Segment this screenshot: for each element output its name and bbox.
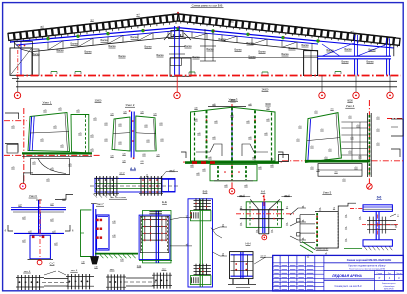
section E-E outline [139, 211, 171, 263]
title block object name [331, 274, 362, 278]
node 6 axis circle [37, 260, 42, 265]
svg-text:Узел 2: Узел 2 [126, 103, 135, 107]
truss top chord left slope [10, 28, 178, 45]
svg-text:лист 8: лист 8 [24, 271, 31, 273]
purlin leader labels [40, 14, 354, 33]
svg-text:С(: С( [271, 158, 274, 161]
node 3 side section ticks [181, 152, 283, 158]
section A-A hatch below [93, 194, 117, 198]
node 2 title [125, 103, 135, 107]
svg-text:Смена чертежей КМ-021-ОБОЗНАЧ: Смена чертежей КМ-021-ОБОЗНАЧ [347, 258, 392, 262]
svg-text:Балка: Балка [84, 51, 92, 54]
svg-text:0-0: 0-0 [377, 195, 382, 199]
node 3 edge stiffener dashes [195, 113, 272, 161]
svg-text:Балка: Балка [234, 49, 242, 52]
svg-text:лист: лист [162, 268, 167, 270]
svg-text:Балка: Балка [281, 53, 289, 56]
section A-A bolt cluster right [139, 176, 163, 196]
section E-E leader labels [170, 215, 192, 246]
svg-text:С-С: С-С [50, 261, 55, 265]
brace detail crossing beams [240, 210, 284, 234]
section H-H label [246, 241, 251, 245]
node 6 section arrows b-b [5, 225, 74, 233]
svg-text:24000: 24000 [262, 89, 269, 92]
node 2 dim labels [104, 111, 164, 163]
title label: scheme of frame axis [191, 3, 224, 7]
roof purlins right slope [177, 14, 400, 47]
svg-text:6000: 6000 [265, 103, 271, 106]
truss bottom chord right [178, 37, 318, 52]
node 3 internal bracket lines [196, 144, 268, 156]
title block project name [349, 264, 387, 270]
section E-E label [162, 200, 167, 204]
title block outer frame [273, 255, 404, 291]
svg-text:Балка: Балка [108, 45, 116, 48]
strip V-V bottom splice box [190, 276, 211, 285]
svg-text:лист3: лист3 [239, 195, 245, 197]
annex bracing webs [322, 43, 386, 56]
green dimension ticks above baseline [51, 72, 341, 75]
ground line upper [16, 80, 397, 82]
svg-text:АРХСТРОЙ: АРХСТРОЙ [384, 288, 394, 291]
svg-text:Узел 4: Узел 4 [346, 104, 355, 108]
annex roof chord [318, 41, 394, 56]
svg-text:Балка: Балка [144, 46, 152, 49]
svg-text:С-Е: С-Е [137, 264, 142, 268]
svg-text:Узел 3: Узел 3 [229, 98, 238, 102]
brace detail red axis [236, 195, 294, 220]
svg-text:Н-Н: Н-Н [246, 241, 251, 245]
truss bottom chord left [33, 37, 178, 52]
axis circle 4 [353, 92, 359, 98]
title block sheet name [334, 285, 362, 288]
column base anchor wedge [91, 257, 99, 265]
svg-text:Схема расп. на оси Б-К: Схема расп. на оси Б-К [334, 285, 362, 288]
node 1 beam panel [28, 113, 70, 152]
svg-text:Узел 5: Узел 5 [323, 191, 332, 195]
section label V-V [203, 189, 208, 193]
section H-H leader [254, 255, 272, 264]
node 1 red axis vertical [4, 108, 100, 184]
svg-text:Балка: Балка [118, 55, 126, 58]
truss web members right [192, 32, 312, 51]
svg-text:Балка: Балка [206, 48, 214, 51]
column base labels [81, 221, 124, 269]
node 6 top flange beam [11, 207, 66, 212]
node 5 bottom slant [300, 242, 315, 253]
node 1 base outline and arc [31, 159, 71, 175]
node 4 title [345, 104, 354, 108]
roof deck line right [178, 14, 396, 38]
svg-text:Балка: Балка [258, 51, 266, 54]
svg-text:Расчетная часть и монтаж конст: Расчетная часть и монтаж конструкций КМ [349, 268, 385, 271]
node 6 top right step bracket [55, 194, 73, 199]
svg-text:Листов: Листов [396, 273, 401, 275]
node 3 dim labels [190, 104, 274, 187]
node 4 left tick [271, 155, 289, 162]
section A-A label [130, 167, 137, 171]
axis circle 2 [174, 92, 180, 98]
span dimension labels below ground [95, 89, 354, 107]
svg-text:Балка: Балка [192, 56, 200, 59]
node 3 stiffener dashed rib 3 [254, 110, 256, 160]
svg-text:лист2: лист2 [169, 170, 175, 172]
column base blue column line [91, 204, 97, 257]
svg-text:Е-Е: Е-Е [162, 200, 167, 204]
brace detail blue web pair [263, 202, 265, 233]
brace detail gusset plate [246, 202, 281, 228]
node 2 center splice plates [129, 110, 135, 159]
svg-text:Балка: Балка [184, 45, 192, 48]
svg-text:Балка: Балка [344, 48, 352, 51]
axis circle 1 [14, 92, 20, 98]
strip V-V bottom bolt grid [194, 264, 211, 275]
node markers on top chord [46, 26, 320, 42]
svg-text:6000: 6000 [347, 100, 353, 103]
node 6 dim labels [18, 199, 66, 245]
annex column axis 5 [387, 38, 390, 76]
section 0-0 bolt grid [362, 214, 399, 236]
node 4 lower box [318, 164, 362, 177]
node 6 base box [28, 199, 54, 261]
axis circle 3 [319, 92, 325, 98]
svg-text:Балка: Балка [130, 36, 138, 39]
column base detail label [96, 203, 104, 206]
ridge post structure [200, 29, 216, 61]
node 3 bearing band [185, 161, 279, 164]
section A-A bolt cluster left [94, 176, 119, 196]
column axis 3 (right main) [304, 51, 318, 76]
node 1 right gusset panel [71, 115, 89, 154]
anchor strip 2 left cluster [106, 274, 126, 290]
anchor strip 1 right cluster [66, 274, 94, 289]
svg-text:лист3: лист3 [260, 255, 266, 257]
svg-text:б-б: б-б [261, 189, 266, 193]
section 0-0 web [376, 211, 379, 239]
svg-text:Балка: Балка [341, 60, 349, 63]
svg-text:лист2: лист2 [119, 173, 125, 175]
svg-text:Схема рамы по оси Б-В: Схема рамы по оси Б-В [192, 3, 223, 7]
node 5 top step bracket [338, 203, 363, 211]
brace detail labels [240, 207, 289, 232]
node 4 axis circle with slash [367, 184, 373, 190]
strip V-V top bolt grid [194, 198, 211, 210]
svg-text:Балка: Балка [100, 39, 108, 42]
column base ground line [95, 254, 138, 259]
node 6 web stem [36, 200, 42, 233]
axis circle 5 [387, 92, 393, 98]
column base green bracket [81, 210, 92, 257]
node 1 bearing band [22, 153, 92, 156]
svg-text:ЛЕДОВАЯ АРЕНА: ЛЕДОВАЯ АРЕНА [331, 274, 362, 278]
note above title block [316, 248, 362, 250]
red datum dash-dot line [16, 75, 401, 77]
truss top chord right slope [178, 28, 318, 44]
svg-text:30000: 30000 [95, 100, 102, 103]
strip V-V top splice box [190, 211, 211, 221]
brace detail axis circle [262, 235, 267, 240]
svg-text:Балка: Балка [70, 42, 78, 45]
annex column axis 4 [355, 35, 358, 76]
title block doc number [347, 258, 392, 262]
svg-text:лист3: лист3 [284, 195, 290, 197]
node 4 red axes [282, 100, 403, 183]
anchor strip 2 labels [110, 264, 167, 271]
svg-text:Балка: Балка [326, 49, 334, 52]
weld callout symbols [290, 206, 306, 240]
anchor strip 2 right cluster [152, 273, 172, 289]
node 4 connection web lines [341, 122, 367, 160]
eave brace left [14, 43, 33, 53]
svg-text:Узел 6: Узел 6 [29, 194, 37, 198]
column base bolt squares [96, 219, 102, 239]
node 2 right panel [136, 116, 156, 151]
node 1 title [42, 101, 52, 105]
column base flange plate [97, 215, 110, 250]
anchor strip 2 tie rods [124, 278, 156, 286]
node 4 column flange vertical [368, 113, 372, 177]
node 3 title [228, 98, 238, 102]
node 3 stiffener dashed rib 1 [206, 110, 208, 160]
node 4 bearing band [305, 160, 370, 163]
svg-text:лист 2 со стыком: лист 2 со стыком [110, 197, 126, 199]
section 0-0 bottom flange [363, 240, 392, 250]
svg-text:Стадия: Стадия [377, 273, 383, 275]
svg-text:Балка: Балка [366, 60, 374, 63]
roof deck line left [8, 14, 178, 34]
anchor strip 1 labels [23, 270, 78, 273]
title block company cell [374, 281, 395, 291]
member labels under chords [32, 36, 376, 63]
svg-text:Балка: Балка [301, 44, 309, 47]
apex joint cluster [164, 31, 191, 41]
node 1 drop line [24, 173, 33, 183]
column axis 1 (left) [10, 42, 39, 79]
node 6 title [29, 194, 38, 198]
node 2 left panel [112, 117, 130, 151]
anchor strip 1 left cluster [16, 275, 44, 290]
node 1 axis circle [20, 183, 26, 189]
node 5 title [322, 191, 331, 195]
node 1 weld/dim labels [11, 108, 97, 181]
svg-text:Балка: Балка [248, 56, 256, 59]
tie beam main span [182, 57, 317, 59]
ground line lower [16, 86, 397, 88]
section 0-0 labels [359, 217, 398, 227]
svg-text:г. Новосибирск: г. Новосибирск [383, 286, 395, 288]
section A-A right end box [162, 179, 175, 191]
section A-A leader labels [119, 170, 178, 179]
svg-text:Балка: Балка [368, 49, 376, 52]
svg-text:Балка: Балка [156, 54, 164, 57]
node 6 bottom flange [14, 232, 64, 234]
section A-A beam outline [90, 179, 180, 193]
svg-text:Крытая ледовая арена на образу: Крытая ледовая арена на образу [349, 264, 387, 267]
node 3 main panel outline [191, 107, 276, 161]
truss web members left [48, 32, 168, 50]
node 5 side bracket plates [297, 215, 315, 243]
svg-text:А-А: А-А [130, 167, 137, 171]
anchor strip 1 tie rods [42, 271, 70, 286]
ridge marker [177, 12, 179, 14]
node 3 stiffener dashed rib 2 [231, 107, 233, 160]
strip V-V outline [188, 199, 213, 287]
node 4 dim labels [296, 109, 380, 181]
svg-text:лист: лист [110, 269, 115, 271]
axis drop lines [18, 76, 390, 93]
svg-text:Балка: Балка [56, 49, 64, 52]
svg-text:Балка: Балка [288, 47, 296, 50]
node 3 axis circle [229, 188, 235, 194]
annex crane beam [317, 56, 391, 59]
node 3 red center axis [183, 104, 282, 188]
svg-text:Узел 7: Узел 7 [96, 203, 104, 206]
section E-E bolt grid [141, 212, 167, 242]
svg-text:Компания проект: Компания проект [382, 283, 396, 285]
svg-text:В-В: В-В [203, 189, 208, 193]
node 1 left bracket fitting [5, 113, 19, 153]
node 5 labels [307, 207, 348, 257]
node 5 gusset box [315, 212, 338, 248]
node 4 slanted beam panel [306, 113, 342, 163]
section label C-C [50, 261, 55, 265]
svg-text:Узел 1: Узел 1 [43, 101, 52, 105]
section 0-0 label [376, 195, 381, 199]
node 4 right wall brackets [391, 119, 403, 157]
section E-E bottom green line [139, 260, 172, 262]
svg-text:Балка: Балка [246, 42, 254, 45]
section H-H legs and base [228, 279, 256, 288]
strip V-V leader labels [211, 225, 227, 256]
svg-text:Балка: Балка [32, 53, 40, 56]
node 3 lower box [210, 164, 257, 180]
svg-text:Примечание: Примечание [316, 248, 329, 250]
svg-text:Лист: Лист [388, 273, 392, 275]
section label 6-6 [261, 189, 266, 193]
title block left grid [273, 255, 324, 291]
section 0-0 top flange [363, 205, 392, 212]
svg-text:Балка: Балка [218, 38, 226, 41]
roof purlins left slope [8, 14, 179, 43]
svg-text:лист 8: лист 8 [71, 270, 78, 272]
title block row lines right [324, 263, 403, 281]
column axis 2 (center, under ridge) [169, 26, 191, 76]
label below section A-A [109, 197, 127, 199]
section H-H box [230, 252, 254, 279]
title block stage grid [374, 271, 403, 281]
brace detail corner leaders [237, 195, 292, 210]
